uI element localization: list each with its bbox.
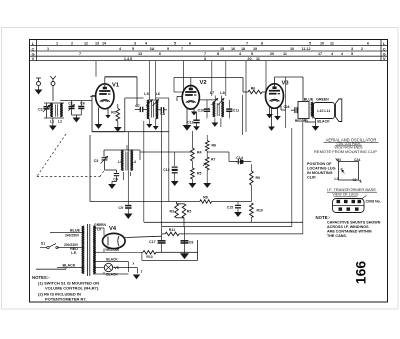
svg-text:C2: C2 [68, 101, 73, 105]
svg-text:C15: C15 [227, 206, 233, 210]
svg-text:R5: R5 [197, 172, 202, 176]
svg-text:C16: C16 [283, 105, 289, 109]
svg-text:R9: R9 [256, 176, 261, 180]
svg-text:11: 11 [330, 41, 334, 45]
svg-text:YELLOW: YELLOW [105, 248, 120, 252]
svg-text:C13: C13 [163, 168, 169, 172]
svg-text:2: 2 [71, 41, 73, 45]
svg-text:13: 13 [138, 52, 142, 56]
svg-text:POTENTIOMETER R7.: POTENTIOMETER R7. [45, 296, 87, 301]
svg-text:BLACK: BLACK [106, 273, 118, 277]
svg-text:BLACK: BLACK [106, 258, 118, 262]
svg-text:L1: L1 [50, 119, 54, 123]
svg-text:11: 11 [256, 57, 260, 61]
svg-text:10: 10 [290, 47, 294, 51]
svg-text:x: x [133, 261, 135, 265]
svg-text:6: 6 [189, 41, 191, 45]
svg-text:3A: 3A [150, 47, 155, 51]
svg-text:3: 3 [134, 41, 136, 45]
svg-text:C9: C9 [118, 206, 123, 210]
svg-text:8: 8 [261, 41, 263, 45]
svg-text:5: 5 [351, 52, 353, 56]
svg-text:15: 15 [220, 47, 224, 51]
svg-text:6: 6 [367, 41, 369, 45]
svg-text:V1: V1 [112, 83, 120, 89]
svg-text:C4: C4 [113, 178, 118, 182]
svg-text:THE CANS.: THE CANS. [327, 234, 347, 238]
svg-text:7: 7 [181, 47, 183, 51]
svg-text:C7: C7 [135, 104, 140, 108]
svg-text:GREEN: GREEN [316, 97, 329, 101]
svg-text:11.12: 11.12 [301, 47, 310, 51]
svg-text:C11: C11 [233, 109, 239, 113]
svg-text:5: 5 [132, 47, 134, 51]
svg-text:RED: RED [70, 247, 78, 251]
svg-text:S1: S1 [41, 242, 45, 246]
svg-text:R1: R1 [111, 110, 116, 114]
svg-text:C17: C17 [149, 240, 155, 244]
svg-text:1.4.5: 1.4.5 [124, 57, 132, 61]
svg-text:L5: L5 [144, 92, 148, 96]
svg-text:V5: V5 [114, 266, 118, 270]
svg-text:BLACK: BLACK [63, 264, 76, 268]
svg-text:VOLUME CONTROL (R4,R7).: VOLUME CONTROL (R4,R7). [45, 286, 99, 291]
svg-text:L.E.: L.E. [71, 251, 77, 255]
svg-text:16: 16 [231, 47, 235, 51]
svg-text:C6: C6 [80, 101, 85, 105]
svg-text:IN MOUNTING: IN MOUNTING [307, 171, 333, 175]
svg-text:10: 10 [320, 41, 324, 45]
svg-text:13: 13 [95, 41, 99, 45]
svg-text:2: 2 [361, 47, 363, 51]
svg-text:V4: V4 [109, 226, 117, 232]
svg-text:R3: R3 [170, 210, 175, 214]
svg-text:R4: R4 [197, 151, 202, 155]
svg-text:L6: L6 [156, 92, 160, 96]
svg-text:7: 7 [79, 52, 81, 56]
svg-text:166: 166 [353, 261, 369, 285]
svg-text:L7: L7 [210, 91, 214, 95]
svg-text:18: 18 [241, 47, 245, 51]
svg-text:CLIP.: CLIP. [307, 175, 316, 179]
svg-text:5: 5 [309, 41, 311, 45]
svg-text:L3: L3 [118, 160, 122, 164]
svg-text:C8: C8 [160, 112, 165, 116]
svg-text:L10 L11: L10 L11 [317, 109, 330, 113]
svg-text:C12: C12 [187, 120, 193, 124]
svg-text:NOTE:-: NOTE:- [316, 215, 331, 220]
svg-text:L4: L4 [132, 160, 136, 164]
svg-text:CAPACITIVE SHUNTS SHOWN: CAPACITIVE SHUNTS SHOWN [327, 220, 381, 224]
svg-text:VIEW OF LUGS: VIEW OF LUGS [333, 193, 360, 197]
svg-text:12: 12 [84, 41, 88, 45]
svg-text:NOTES:-: NOTES:- [32, 275, 50, 280]
svg-text:R7: R7 [211, 158, 216, 162]
svg-text:R6: R6 [212, 144, 217, 148]
svg-text:R8: R8 [203, 195, 208, 199]
svg-text:ARE CONTAINED WITHIN: ARE CONTAINED WITHIN [327, 229, 372, 233]
svg-text:3: 3 [351, 47, 353, 51]
svg-text:LOCATING LUG: LOCATING LUG [307, 166, 336, 170]
svg-text:R10: R10 [257, 209, 263, 213]
svg-text:11: 11 [283, 52, 287, 56]
svg-text:1: 1 [56, 41, 58, 45]
svg-text:20: 20 [270, 52, 274, 56]
svg-text:T: T [141, 270, 143, 274]
svg-text:L2: L2 [335, 177, 339, 181]
svg-text:240/250V: 240/250V [65, 233, 80, 237]
svg-text:C2A: C2A [354, 158, 361, 162]
svg-text:1: 1 [47, 47, 49, 51]
svg-text:C2: C2 [353, 178, 357, 182]
svg-text:5: 5 [174, 41, 176, 45]
svg-text:BLUE: BLUE [70, 229, 81, 233]
svg-text:L8: L8 [220, 91, 224, 95]
svg-text:R13: R13 [146, 255, 152, 259]
svg-text:3: 3 [204, 57, 206, 61]
svg-text:7: 7 [246, 41, 248, 45]
svg-text:8: 8 [217, 52, 219, 56]
svg-text:L2: L2 [58, 119, 62, 123]
svg-text:6: 6 [159, 52, 161, 56]
svg-text:17: 17 [318, 52, 322, 56]
svg-text:I.F. TRANSFORMER BASE: I.F. TRANSFORMER BASE [327, 187, 376, 192]
svg-text:V2: V2 [200, 80, 207, 86]
svg-text:5: 5 [251, 52, 253, 56]
svg-text:20.: 20. [247, 57, 252, 61]
svg-text:C10: C10 [198, 109, 204, 113]
svg-text:REMOTE FROM MOUNTING CLIP: REMOTE FROM MOUNTING CLIP [314, 149, 377, 154]
svg-text:ACROSS I.F. WINDINGS: ACROSS I.F. WINDINGS [327, 225, 369, 229]
svg-text:POSITION OF: POSITION OF [307, 162, 332, 166]
svg-text:7: 7 [204, 52, 206, 56]
svg-text:V: V [383, 56, 386, 61]
svg-text:V: V [32, 56, 35, 61]
svg-text:R5: R5 [187, 210, 192, 214]
svg-text:R11: R11 [169, 228, 175, 232]
svg-text:C1: C1 [38, 108, 43, 112]
svg-text:C14: C14 [236, 156, 244, 160]
svg-text:9: 9 [167, 47, 169, 51]
svg-text:R6: R6 [251, 87, 256, 91]
svg-text:GREEN: GREEN [94, 223, 106, 227]
svg-text:C8: C8 [189, 240, 194, 244]
svg-text:BLUE: BLUE [304, 98, 314, 102]
svg-text:C008 No.: C008 No. [366, 199, 381, 203]
svg-text:BLACK: BLACK [317, 119, 330, 123]
svg-text:C3: C3 [94, 159, 99, 163]
svg-text:19: 19 [253, 47, 257, 51]
